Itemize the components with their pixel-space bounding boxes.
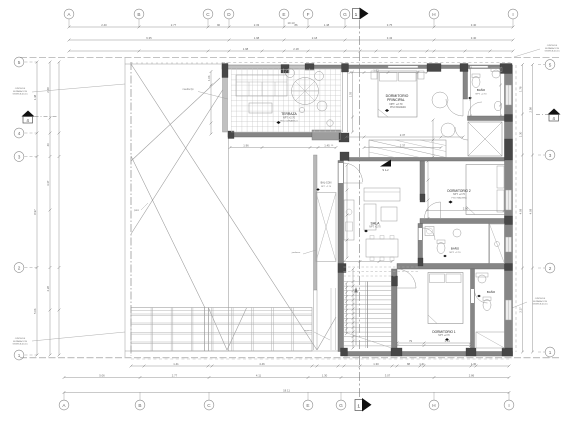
terraza pot 2 — [327, 120, 333, 126]
svg-text:E: E — [306, 403, 309, 408]
svg-text:2.48: 2.48 — [46, 87, 50, 93]
svg-text:3.40: 3.40 — [471, 36, 477, 40]
column C19 — [466, 348, 476, 356]
grid stem H top — [433, 19, 435, 27]
benchmark symbol left — [22, 111, 35, 117]
svg-text:1: 1 — [549, 350, 552, 355]
grid bubble 1 left — [14, 350, 24, 360]
grid bubble I bottom — [504, 400, 514, 410]
keynote sala — [364, 230, 368, 233]
keynote dorm1 — [445, 338, 449, 341]
svg-text:1.41: 1.41 — [173, 362, 179, 366]
sofa sala — [364, 188, 400, 201]
section triangle S1-2 — [380, 160, 391, 167]
keynote bath bottom — [477, 295, 481, 298]
building left wall lower — [338, 161, 344, 352]
svg-text:3.40: 3.40 — [471, 23, 477, 27]
svg-text:SISMICA (5cm): SISMICA (5cm) — [12, 93, 27, 96]
patio diagonal upper-left a2 — [131, 83, 227, 234]
svg-text:2.18: 2.18 — [312, 36, 318, 40]
grid stem E bottom — [307, 392, 309, 400]
column C15 — [228, 131, 234, 139]
svg-text:1.30: 1.30 — [471, 362, 477, 366]
svg-text:I: I — [508, 403, 509, 408]
grid bubble B top — [134, 9, 144, 19]
svg-text:SEPARACION: SEPARACION — [13, 340, 28, 343]
grid bubble G bottom — [336, 400, 346, 410]
property line dashed bottom — [20, 357, 560, 359]
bath top bottom wall — [468, 116, 505, 121]
column C12 — [339, 133, 349, 142]
svg-text:2.90: 2.90 — [463, 206, 469, 210]
interior ticks top wall inside — [350, 72, 427, 74]
grid stem C top — [207, 19, 209, 27]
nightstand right — [418, 71, 424, 79]
interior ticks sala left — [346, 165, 348, 258]
grid stem 4 left — [25, 132, 38, 134]
exterior wall top — [312, 65, 512, 69]
bottom dimension chain row2 — [64, 377, 509, 379]
grid stem G bottom — [340, 392, 342, 400]
svg-text:1.96: 1.96 — [243, 143, 249, 147]
keynote terraza — [276, 121, 280, 124]
beam block terraza right — [312, 130, 341, 140]
shower mid bath — [490, 224, 505, 264]
bed dorm2 — [466, 165, 505, 215]
grid stem B bottom — [139, 392, 141, 400]
grid bubble A bottom — [59, 400, 69, 410]
column C16 — [392, 276, 398, 286]
wall below dorm2 — [420, 219, 505, 224]
svg-text:8.97: 8.97 — [33, 209, 37, 215]
svg-text:6.35: 6.35 — [146, 36, 152, 40]
svg-text:jardinera: jardinera — [291, 251, 301, 254]
column C17 — [341, 348, 348, 356]
stairs right wall — [392, 269, 398, 352]
keynote bath mid — [443, 255, 447, 258]
interior dim vertical at stairs — [352, 269, 354, 348]
svg-text:BAÑO: BAÑO — [487, 289, 496, 294]
svg-text:3.07: 3.07 — [385, 373, 391, 377]
svg-text:2: 2 — [18, 265, 21, 270]
svg-text:4.46: 4.46 — [259, 362, 265, 366]
keynote dorm ppal — [385, 109, 389, 112]
door arc mid bath — [423, 228, 435, 240]
door gap mid bath — [419, 228, 423, 240]
grid stem I top — [512, 19, 514, 27]
bidet bath top — [494, 101, 501, 111]
svg-text:JUNTA DE: JUNTA DE — [547, 44, 558, 47]
grid stem A bottom — [63, 392, 65, 400]
dorm2 left wall — [420, 161, 425, 200]
dorm1 / bath wall — [471, 269, 475, 352]
svg-text:SEPARACION: SEPARACION — [13, 90, 28, 93]
terraza side table — [249, 103, 272, 113]
svg-text:NPT. +2.70: NPT. +2.70 — [283, 116, 296, 119]
svg-text:1.98: 1.98 — [243, 47, 249, 51]
grid stem G top — [344, 19, 346, 27]
sofa sala side — [364, 204, 376, 230]
svg-text:4.37: 4.37 — [46, 180, 50, 186]
svg-text:SEPARACION: SEPARACION — [533, 300, 548, 303]
svg-text:DORMITORIO 1: DORMITORIO 1 — [432, 330, 456, 334]
grid bubble H bottom — [429, 400, 439, 410]
svg-text:18.11: 18.11 — [283, 388, 290, 392]
balcon outer wall — [314, 155, 318, 290]
grid bubble A top — [64, 9, 74, 19]
left dimension chain col2 — [49, 62, 51, 355]
tick row below bottom wall — [131, 358, 512, 360]
grid bubble D top — [224, 9, 234, 19]
terraza left wall — [223, 66, 228, 132]
column C4 — [342, 64, 349, 73]
svg-text:1: 1 — [355, 12, 358, 18]
section marker bottom (arrow) — [355, 400, 363, 411]
interior dim dorm ppal — [364, 147, 441, 149]
svg-text:SEPARACION: SEPARACION — [545, 47, 560, 50]
column C9 — [505, 216, 513, 225]
column C13 — [340, 152, 349, 161]
door arc dorm2 — [425, 202, 441, 218]
column C11 — [505, 115, 513, 122]
svg-text:patio: patio — [134, 209, 140, 212]
fence section divider — [204, 308, 206, 352]
svg-text:1.98: 1.98 — [254, 36, 260, 40]
svg-text:2.40: 2.40 — [101, 23, 107, 27]
svg-text:3: 3 — [549, 153, 552, 158]
closet dorm principal — [369, 140, 446, 158]
grid bubble 1 right — [545, 347, 555, 357]
property line dashed top — [20, 57, 560, 59]
svg-text:2: 2 — [549, 266, 552, 271]
svg-text:NPT. +2.70: NPT. +2.70 — [476, 93, 488, 95]
svg-text:1.41: 1.41 — [445, 339, 451, 343]
grid bubble 5 right — [545, 60, 555, 70]
svg-text:NPT +2.70: NPT +2.70 — [321, 186, 332, 188]
balcon planter X — [316, 193, 336, 262]
top dimension chain row2 — [69, 39, 513, 41]
fence band inner top line — [131, 310, 312, 312]
grid stem 5 right — [538, 64, 545, 66]
benchmark symbol right — [548, 109, 561, 115]
wall below mid bath — [397, 264, 505, 270]
column C8 — [505, 139, 513, 160]
right dimension chain col2 — [532, 65, 534, 353]
interior dim vertical dorm ppal left — [352, 72, 354, 132]
grid bubble B bottom — [135, 400, 145, 410]
sink bath top — [492, 70, 500, 78]
door opening sala-balcon — [339, 163, 344, 183]
svg-text:4.28: 4.28 — [46, 286, 50, 292]
svg-text:PISO MADERA: PISO MADERA — [390, 106, 406, 109]
bottom dimension chain row1 — [131, 365, 509, 367]
terraza sofa — [236, 75, 287, 96]
svg-text:79: 79 — [409, 339, 413, 343]
svg-text:JUNTA DE: JUNTA DE — [15, 87, 26, 90]
grid stem 2 right — [538, 267, 545, 269]
terraza pot — [299, 107, 304, 112]
grid stem B top — [138, 19, 140, 27]
grid stem A top — [68, 19, 70, 27]
lot boundary left inner dash-dot — [130, 62, 132, 356]
svg-text:5.06: 5.06 — [99, 373, 105, 377]
door arc dorm1 — [397, 269, 416, 288]
grid bubble E top — [279, 9, 289, 19]
svg-text:BAÑO: BAÑO — [477, 87, 486, 92]
interior ticks corridor — [344, 261, 392, 263]
svg-text:SISMICA (5cm): SISMICA (5cm) — [544, 50, 559, 53]
svg-text:1.48: 1.48 — [33, 94, 37, 100]
svg-text:SALA: SALA — [371, 221, 381, 225]
grid bubble E bottom — [303, 400, 313, 410]
window right wall 3 — [506, 237, 512, 252]
svg-text:F: F — [307, 12, 310, 17]
svg-text:2.18: 2.18 — [293, 47, 299, 51]
terraza round table — [292, 78, 319, 105]
stairs treads — [344, 281, 392, 283]
svg-text:5: 5 — [18, 60, 21, 65]
svg-text:3: 3 — [18, 154, 21, 159]
grid stem 5 left — [25, 61, 38, 63]
left dimension chain col1 — [36, 62, 38, 355]
svg-text:G: G — [343, 12, 347, 17]
svg-text:1.45: 1.45 — [324, 143, 330, 147]
column C21 — [418, 258, 423, 266]
svg-text:3.43: 3.43 — [387, 36, 393, 40]
svg-text:4: 4 — [18, 131, 21, 136]
shower drain — [495, 242, 500, 247]
grid stem 3 left — [25, 156, 38, 158]
wall below dorm principal — [348, 158, 505, 162]
window terraza-dorm divider — [342, 72, 344, 132]
svg-text:S 1-2: S 1-2 — [382, 168, 389, 172]
chair dorm ppal — [432, 92, 448, 108]
window right wall 2 — [506, 190, 512, 210]
svg-text:NPT. +2.70: NPT. +2.70 — [438, 335, 450, 337]
beam projection dashed outline — [313, 131, 341, 140]
shower bath bottom — [476, 332, 505, 348]
grid bubble 2 left — [14, 263, 24, 273]
svg-text:I: I — [512, 12, 513, 17]
svg-text:1.52: 1.52 — [373, 68, 379, 72]
vestidor door arc — [455, 127, 468, 140]
grid stem F top — [307, 19, 309, 27]
grid stem E top — [283, 19, 285, 27]
window top wall 2 — [470, 66, 488, 68]
interior dim dorm2 — [427, 210, 504, 212]
grid stem 1 left — [25, 354, 38, 356]
svg-text:NPT. +2.70: NPT. +2.70 — [369, 227, 381, 229]
top dimension chain row1 — [69, 26, 513, 28]
stairs tick chain 2 — [346, 283, 348, 334]
nightstand left — [371, 71, 377, 79]
bed dorm principal — [378, 71, 417, 117]
column C7 — [500, 64, 512, 74]
svg-text:SISMICA (5cm): SISMICA (5cm) — [532, 303, 547, 306]
svg-text:4.11: 4.11 — [256, 373, 262, 377]
grid stem 2 left — [25, 267, 38, 269]
sink bath bottom — [478, 275, 486, 283]
svg-text:NPT. +2.70: NPT. +2.70 — [390, 102, 403, 106]
terraza tile grid — [231, 69, 233, 133]
interior ticks dorm2 left — [427, 161, 429, 219]
vestidor box — [468, 122, 502, 156]
svg-text:ingreso: ingreso — [304, 329, 312, 332]
svg-text:1.55: 1.55 — [348, 91, 352, 97]
svg-text:86: 86 — [294, 23, 298, 27]
keynote dorm2 — [448, 201, 452, 204]
terraza chair 2 — [286, 69, 295, 78]
svg-text:10.13: 10.13 — [288, 21, 295, 25]
patio diagonal fence V right — [227, 308, 247, 350]
corridor projection lines — [344, 266, 421, 268]
stairs under cut diagonal — [344, 332, 392, 348]
door gap bath bottom — [471, 289, 474, 303]
svg-text:3.17: 3.17 — [518, 307, 522, 313]
kitchen sink — [346, 209, 352, 215]
svg-text:NPT. +2.70: NPT. +2.70 — [453, 193, 466, 196]
svg-text:BAÑO: BAÑO — [451, 246, 460, 251]
svg-text:2.98: 2.98 — [528, 107, 532, 113]
svg-text:PISO MADERA: PISO MADERA — [451, 196, 467, 199]
svg-text:2.37: 2.37 — [400, 143, 406, 147]
svg-text:PISO CERAMICO: PISO CERAMICO — [280, 120, 298, 123]
column C1 — [222, 64, 228, 78]
kitchen stove — [346, 222, 353, 231]
svg-text:1.31: 1.31 — [419, 362, 425, 366]
svg-text:3.75: 3.75 — [387, 23, 393, 27]
door arc balcon-sala — [344, 163, 363, 182]
toilet bath top — [472, 77, 480, 88]
svg-text:E: E — [282, 12, 285, 17]
svg-text:1.30: 1.30 — [373, 362, 379, 366]
chair 2 dorm ppal — [441, 123, 455, 137]
column C10 — [505, 264, 513, 271]
svg-text:1.30: 1.30 — [322, 373, 328, 377]
patio diagonal long — [131, 64, 317, 350]
terraza chair 3 — [315, 72, 324, 81]
svg-text:JUNTA DE: JUNTA DE — [15, 337, 26, 340]
column C3 — [305, 64, 314, 71]
mid bath left wall — [418, 224, 423, 264]
svg-text:2.86: 2.86 — [469, 373, 475, 377]
svg-text:NPT. +2.70: NPT. +2.70 — [450, 252, 462, 254]
patio diagonal upper-left a — [131, 78, 220, 161]
svg-text:PRINCIPAL: PRINCIPAL — [387, 98, 405, 102]
sink mid bath — [453, 229, 461, 237]
terraza bottom wall — [228, 133, 312, 138]
svg-text:B: B — [138, 403, 141, 408]
toilet mid bath — [437, 243, 445, 254]
grid stem C bottom — [208, 392, 210, 400]
svg-text:2.77: 2.77 — [171, 23, 177, 27]
patio diagonal balcon corner — [317, 317, 336, 350]
column C20 — [502, 348, 513, 356]
grid stem H bottom — [433, 392, 435, 400]
interior dim small near beam — [230, 147, 336, 149]
keynote balcon — [316, 188, 320, 191]
interior ticks dorm1 bottom — [397, 345, 471, 347]
svg-text:1: 1 — [18, 353, 21, 358]
interior dim horizontal dorm1 — [397, 342, 471, 344]
svg-text:DORMITORIO 2: DORMITORIO 2 — [447, 189, 471, 193]
exterior wall bottom — [344, 352, 513, 357]
terraza railing top — [222, 65, 312, 69]
kitchen counter — [344, 200, 354, 240]
lot boundary bottom edge — [125, 350, 344, 352]
grid bubble 3 right — [545, 150, 555, 160]
svg-text:88: 88 — [407, 362, 411, 366]
stairs center rail — [367, 282, 369, 349]
grid stem 1 right — [538, 351, 545, 353]
svg-text:H: H — [432, 403, 435, 408]
terraza chair 1 — [317, 101, 327, 111]
column C18 — [391, 348, 402, 356]
svg-text:1.30: 1.30 — [518, 131, 522, 137]
left dimension chain col3 — [58, 62, 60, 355]
svg-text:1.48: 1.48 — [324, 23, 330, 27]
svg-text:SISMICA (5cm): SISMICA (5cm) — [12, 343, 27, 346]
door arc bath bottom — [475, 290, 488, 303]
mid bath shower divider — [488, 224, 490, 264]
svg-text:90: 90 — [217, 23, 221, 27]
lot boundary left outer — [124, 58, 126, 358]
patio diagonal fence V left — [209, 308, 228, 350]
interior ticks right wall inside — [500, 68, 502, 116]
window top wall 1 — [388, 66, 418, 68]
window right wall 1 — [506, 85, 512, 105]
svg-text:4.08: 4.08 — [528, 208, 532, 214]
svg-text:mueble fijo: mueble fijo — [182, 89, 194, 91]
grid bubble 3 left — [14, 152, 24, 162]
svg-text:4.08: 4.08 — [518, 208, 522, 214]
svg-text:40: 40 — [46, 143, 50, 147]
terraza edge extension line — [228, 137, 230, 351]
column C5 — [427, 64, 441, 72]
right dimension chain col1 — [522, 65, 524, 353]
toilet bath bottom — [483, 300, 491, 311]
fence rails — [131, 313, 312, 315]
grid bubble C bottom — [204, 400, 214, 410]
dim chain left of terraza — [210, 72, 212, 135]
svg-text:2.33: 2.33 — [254, 23, 260, 27]
section line 1-1 vertical dash-dot — [359, 20, 361, 399]
coffee table sala — [381, 207, 397, 221]
patio diagonal upper-left b — [131, 156, 205, 308]
window right wall 4 — [506, 300, 512, 320]
svg-text:B: B — [137, 12, 140, 17]
grid bubble 4 left — [14, 128, 24, 138]
svg-text:2.37: 2.37 — [400, 133, 406, 137]
grid stem 3 right — [538, 154, 545, 156]
stairs up arrow — [355, 290, 357, 345]
svg-text:5.06: 5.06 — [33, 308, 37, 314]
balcon lower edge a — [313, 290, 315, 350]
column C6 — [460, 64, 468, 72]
grid stem D top — [228, 19, 230, 27]
svg-text:JUNTA DE: JUNTA DE — [535, 297, 546, 300]
svg-text:1.78: 1.78 — [518, 86, 522, 92]
exterior wall right — [505, 65, 513, 356]
wall dorm ppal / bath — [463, 65, 468, 99]
balcon lower edge b — [316, 290, 318, 350]
column C2 — [281, 65, 289, 74]
grid bubble C top — [203, 9, 213, 19]
door arc dorm ppal — [446, 99, 463, 116]
balcon lower inner lines — [330, 288, 332, 350]
svg-text:1: 1 — [357, 404, 360, 410]
washing machine mid bath — [425, 227, 434, 236]
